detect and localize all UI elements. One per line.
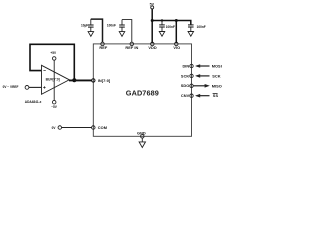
wire: C1 to REF pin bbox=[91, 19, 103, 42]
supply +5V (op-amp V+) bbox=[50, 51, 57, 101]
svg-text:−5V: −5V bbox=[51, 105, 58, 109]
junction: 5V/VDD on rail bbox=[151, 19, 154, 22]
svg-text:SDO: SDO bbox=[181, 83, 190, 88]
ground (GND pin) bbox=[139, 138, 145, 148]
op-amp U2 BUF[7:0] bbox=[42, 65, 70, 94]
svg-text:GAD7689: GAD7689 bbox=[126, 88, 159, 97]
ground (C3) bbox=[159, 32, 165, 37]
wire: feedback loop (bold) bbox=[30, 44, 74, 80]
svg-text:MOSI: MOSI bbox=[212, 64, 222, 69]
svg-text:100nF: 100nF bbox=[197, 25, 206, 29]
supply -5V (op-amp V-) bbox=[51, 100, 58, 109]
svg-text:BUF[7:0]: BUF[7:0] bbox=[46, 78, 60, 82]
ground (C2) bbox=[119, 32, 125, 37]
svg-text:SCK: SCK bbox=[181, 73, 190, 78]
svg-text:MISO: MISO bbox=[212, 83, 222, 88]
svg-text:10µF: 10µF bbox=[81, 23, 88, 27]
ground (C4) bbox=[188, 32, 194, 37]
svg-text:REF IN: REF IN bbox=[125, 45, 138, 50]
wire: 5V rail (bold) bbox=[152, 21, 191, 25]
pin VDD bbox=[148, 42, 157, 50]
svg-text:VIO: VIO bbox=[173, 45, 180, 50]
wire: VIO drop (bold) bbox=[175, 21, 177, 44]
wire: C2 to REF IN pin bbox=[122, 20, 132, 43]
junction: VIO on rail bbox=[175, 19, 178, 22]
wire: input to op-amp + bbox=[29, 86, 41, 88]
IC U1 GAD7689 body bbox=[93, 44, 191, 136]
svg-text:+5V: +5V bbox=[50, 51, 57, 55]
svg-text:CNV: CNV bbox=[181, 93, 190, 98]
wire: 5V to rail and VDD (bold) bbox=[151, 9, 153, 43]
pin CNV bbox=[181, 93, 193, 98]
wire/arrow: MOSI to DIN bbox=[195, 64, 222, 69]
svg-text:0V − VREF: 0V − VREF bbox=[3, 85, 19, 89]
svg-text:IN[7:0]: IN[7:0] bbox=[98, 78, 111, 83]
svg-text:100nF: 100nF bbox=[107, 23, 116, 27]
svg-text:COM: COM bbox=[98, 125, 107, 130]
capacitor C2 100nF (REF IN) bbox=[107, 20, 125, 32]
svg-text:0V: 0V bbox=[52, 126, 57, 130]
pin DIN bbox=[182, 63, 193, 68]
capacitor C4 100nF (VIO) bbox=[188, 25, 206, 32]
ground (C1) bbox=[88, 32, 94, 37]
pin IN[7:0] bbox=[92, 78, 111, 83]
svg-text:GND: GND bbox=[137, 130, 146, 135]
wire/arrow: SDO to MISO bbox=[193, 83, 222, 88]
svg-text:REF: REF bbox=[99, 45, 108, 50]
capacitor C1 10uF bbox=[81, 19, 94, 32]
pin REFIN bbox=[125, 42, 138, 50]
pin REF bbox=[99, 42, 108, 50]
junction: output node bbox=[72, 78, 76, 82]
wire/arrow: SCK bbox=[195, 73, 221, 78]
capacitor C3 100nF (VDD) bbox=[159, 21, 175, 31]
wire: op-amp output to pin IN[7:0] (bold) bbox=[69, 78, 92, 82]
pin VIO bbox=[173, 42, 180, 50]
svg-text:VDD: VDD bbox=[148, 45, 157, 50]
pin SCK bbox=[181, 73, 193, 78]
svg-text:ADA4841-x: ADA4841-x bbox=[25, 100, 42, 104]
pin COM bbox=[92, 125, 107, 130]
input terminal 0V to VREF bbox=[3, 85, 29, 89]
junction: C3 stub on rail bbox=[161, 19, 163, 21]
terminal 0V bbox=[52, 126, 62, 130]
svg-text:DIN: DIN bbox=[182, 63, 189, 68]
svg-text:SCK: SCK bbox=[212, 73, 221, 78]
svg-text:100nF: 100nF bbox=[166, 25, 175, 29]
pin SDO bbox=[181, 83, 193, 88]
label ADA4841-x bbox=[25, 100, 42, 104]
wire: 0V to COM bbox=[61, 127, 91, 129]
pin GND bbox=[137, 130, 146, 138]
supply 5V bbox=[150, 2, 155, 8]
wire/arrow: SS to CNV bbox=[195, 93, 218, 98]
